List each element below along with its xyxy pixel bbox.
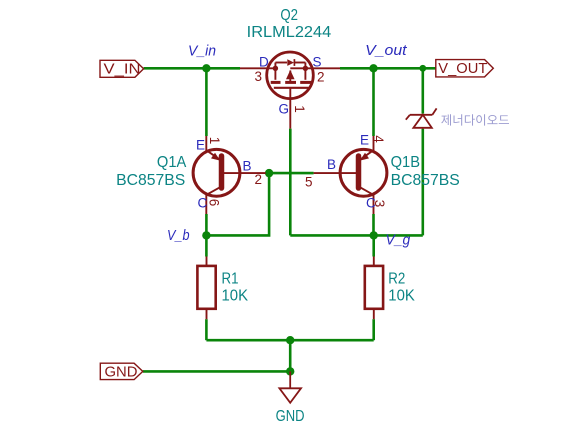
svg-text:3: 3 — [255, 69, 263, 84]
svg-text:B: B — [327, 157, 336, 172]
svg-text:1: 1 — [292, 105, 307, 113]
svg-text:GND: GND — [105, 363, 138, 380]
svg-text:Q1A: Q1A — [157, 154, 187, 171]
svg-text:V_OUT: V_OUT — [438, 60, 487, 77]
svg-text:6: 6 — [206, 199, 221, 207]
svg-text:V_out: V_out — [365, 42, 407, 59]
svg-text:1: 1 — [207, 137, 222, 145]
svg-text:10K: 10K — [388, 288, 415, 305]
svg-text:Q2: Q2 — [280, 7, 298, 24]
svg-text:5: 5 — [305, 175, 313, 190]
svg-text:D: D — [259, 55, 269, 70]
svg-text:R2: R2 — [388, 271, 405, 288]
svg-text:10K: 10K — [222, 288, 249, 305]
svg-text:E: E — [196, 138, 205, 153]
svg-text:3: 3 — [372, 200, 387, 208]
svg-text:R1: R1 — [222, 271, 239, 288]
svg-text:V_in: V_in — [188, 43, 216, 60]
svg-text:BC857BS: BC857BS — [391, 172, 460, 189]
svg-text:IRLML2244: IRLML2244 — [247, 24, 332, 41]
svg-text:B: B — [243, 159, 252, 174]
svg-text:V_IN: V_IN — [104, 61, 141, 78]
svg-text:2: 2 — [255, 172, 263, 187]
svg-text:BC857BS: BC857BS — [116, 172, 185, 189]
svg-text:E: E — [360, 133, 369, 148]
svg-text:G: G — [279, 102, 290, 117]
svg-text:Q1B: Q1B — [391, 154, 420, 171]
svg-text:V_b: V_b — [167, 227, 190, 244]
svg-text:V_g: V_g — [386, 232, 411, 249]
svg-text:C: C — [198, 196, 208, 211]
svg-text:4: 4 — [371, 135, 386, 143]
svg-text:GND: GND — [276, 408, 305, 425]
svg-text:S: S — [313, 55, 322, 70]
svg-text:2: 2 — [317, 70, 325, 85]
